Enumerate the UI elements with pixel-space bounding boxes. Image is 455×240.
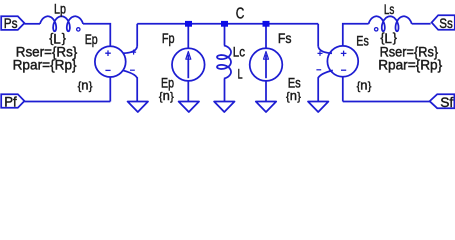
svg-text:Lc: Lc (233, 44, 245, 60)
Es control- horn arc (318, 70, 333, 78)
wire Ep bottom pin (109, 77, 111, 102)
wire Fs to ground (265, 81, 267, 102)
svg-text:L: L (238, 65, 243, 81)
svg-text:n: n (81, 78, 88, 93)
svg-text:Ss: Ss (439, 15, 453, 31)
svg-text:}: } (297, 91, 301, 103)
svg-text:Fp: Fp (162, 30, 175, 46)
port Sf (430, 94, 455, 108)
wire Ls to Ss (412, 23, 431, 25)
Ep control minus (130, 69, 135, 71)
wire Lc to ground (224, 79, 226, 102)
port Ps (1, 16, 24, 30)
vcvs Es circle (327, 46, 358, 77)
wire rail to Es control+ pin (317, 24, 319, 47)
svg-text:Sf: Sf (440, 94, 453, 110)
svg-text:Rpar={Rp}: Rpar={Rp} (13, 56, 77, 72)
junction node C at Lc (224, 24, 226, 46)
wire Lp to Ep (83, 24, 110, 46)
Ep inside plus (105, 50, 111, 56)
svg-text:Ep: Ep (85, 31, 98, 47)
wire rail to Fp (187, 24, 189, 49)
svg-text:}: } (89, 81, 93, 93)
inductor Ls (369, 16, 412, 31)
svg-text:n: n (163, 88, 170, 103)
svg-text:Rpar={Rp}: Rpar={Rp} (378, 56, 442, 72)
svg-text:Ls: Ls (384, 1, 395, 17)
svg-text:Lp: Lp (54, 1, 66, 17)
junction node C at Fp (185, 21, 192, 27)
wire Es bottom pin (342, 77, 344, 102)
svg-text:Fs: Fs (278, 30, 292, 46)
Fp arrow (187, 55, 189, 79)
svg-text:Es: Es (356, 33, 369, 49)
ground under Lc (214, 102, 234, 113)
Ep control- horn arc (123, 70, 138, 78)
Es inside minus (341, 69, 346, 71)
phase dot Lp (77, 28, 80, 31)
wire Fp to ground (187, 81, 189, 102)
phase dot Ls (375, 28, 378, 31)
svg-text:}: } (393, 31, 397, 45)
inductor Lc (217, 46, 231, 79)
cccs Fp circle (172, 48, 205, 81)
Es control+ horn arc (318, 46, 332, 53)
svg-text:}: } (170, 91, 174, 103)
svg-text:n: n (290, 88, 297, 103)
port Ss (432, 15, 455, 30)
wire Es to Sf (343, 101, 430, 103)
Es inside plus (341, 51, 347, 57)
wire rail to Fs (265, 24, 267, 49)
Ep control plus (131, 50, 136, 55)
top rail node C (137, 23, 318, 25)
ground under Ep control (128, 102, 148, 113)
ground under Fs (256, 102, 276, 113)
wire rail to Ep control+ pin (136, 24, 138, 47)
Ep inside minus (105, 69, 110, 71)
ground under Es control (308, 102, 328, 113)
Es control plus (318, 51, 323, 56)
Ep control+ horn arc (123, 46, 137, 53)
wire Es control- to ground (317, 77, 319, 101)
wire Es top pin to Ls (343, 24, 369, 46)
svg-text:Pf: Pf (4, 93, 17, 109)
svg-text:}: } (368, 81, 372, 93)
svg-text:n: n (360, 78, 367, 93)
cccs Fs circle (250, 48, 283, 81)
port Pf (1, 94, 24, 108)
svg-text:C: C (236, 6, 245, 23)
Fs arrow (265, 55, 267, 79)
vcvs Ep circle (95, 46, 126, 77)
svg-text:Ps: Ps (4, 15, 18, 31)
inductor Lp (40, 16, 83, 31)
wire Pf to Ep (24, 101, 110, 103)
junction node C at Fs (263, 21, 270, 27)
Es control minus (316, 69, 321, 71)
wire Ep control- to ground (136, 77, 138, 101)
wire Ps to Lp (24, 23, 40, 25)
ground under Fp (179, 102, 199, 113)
